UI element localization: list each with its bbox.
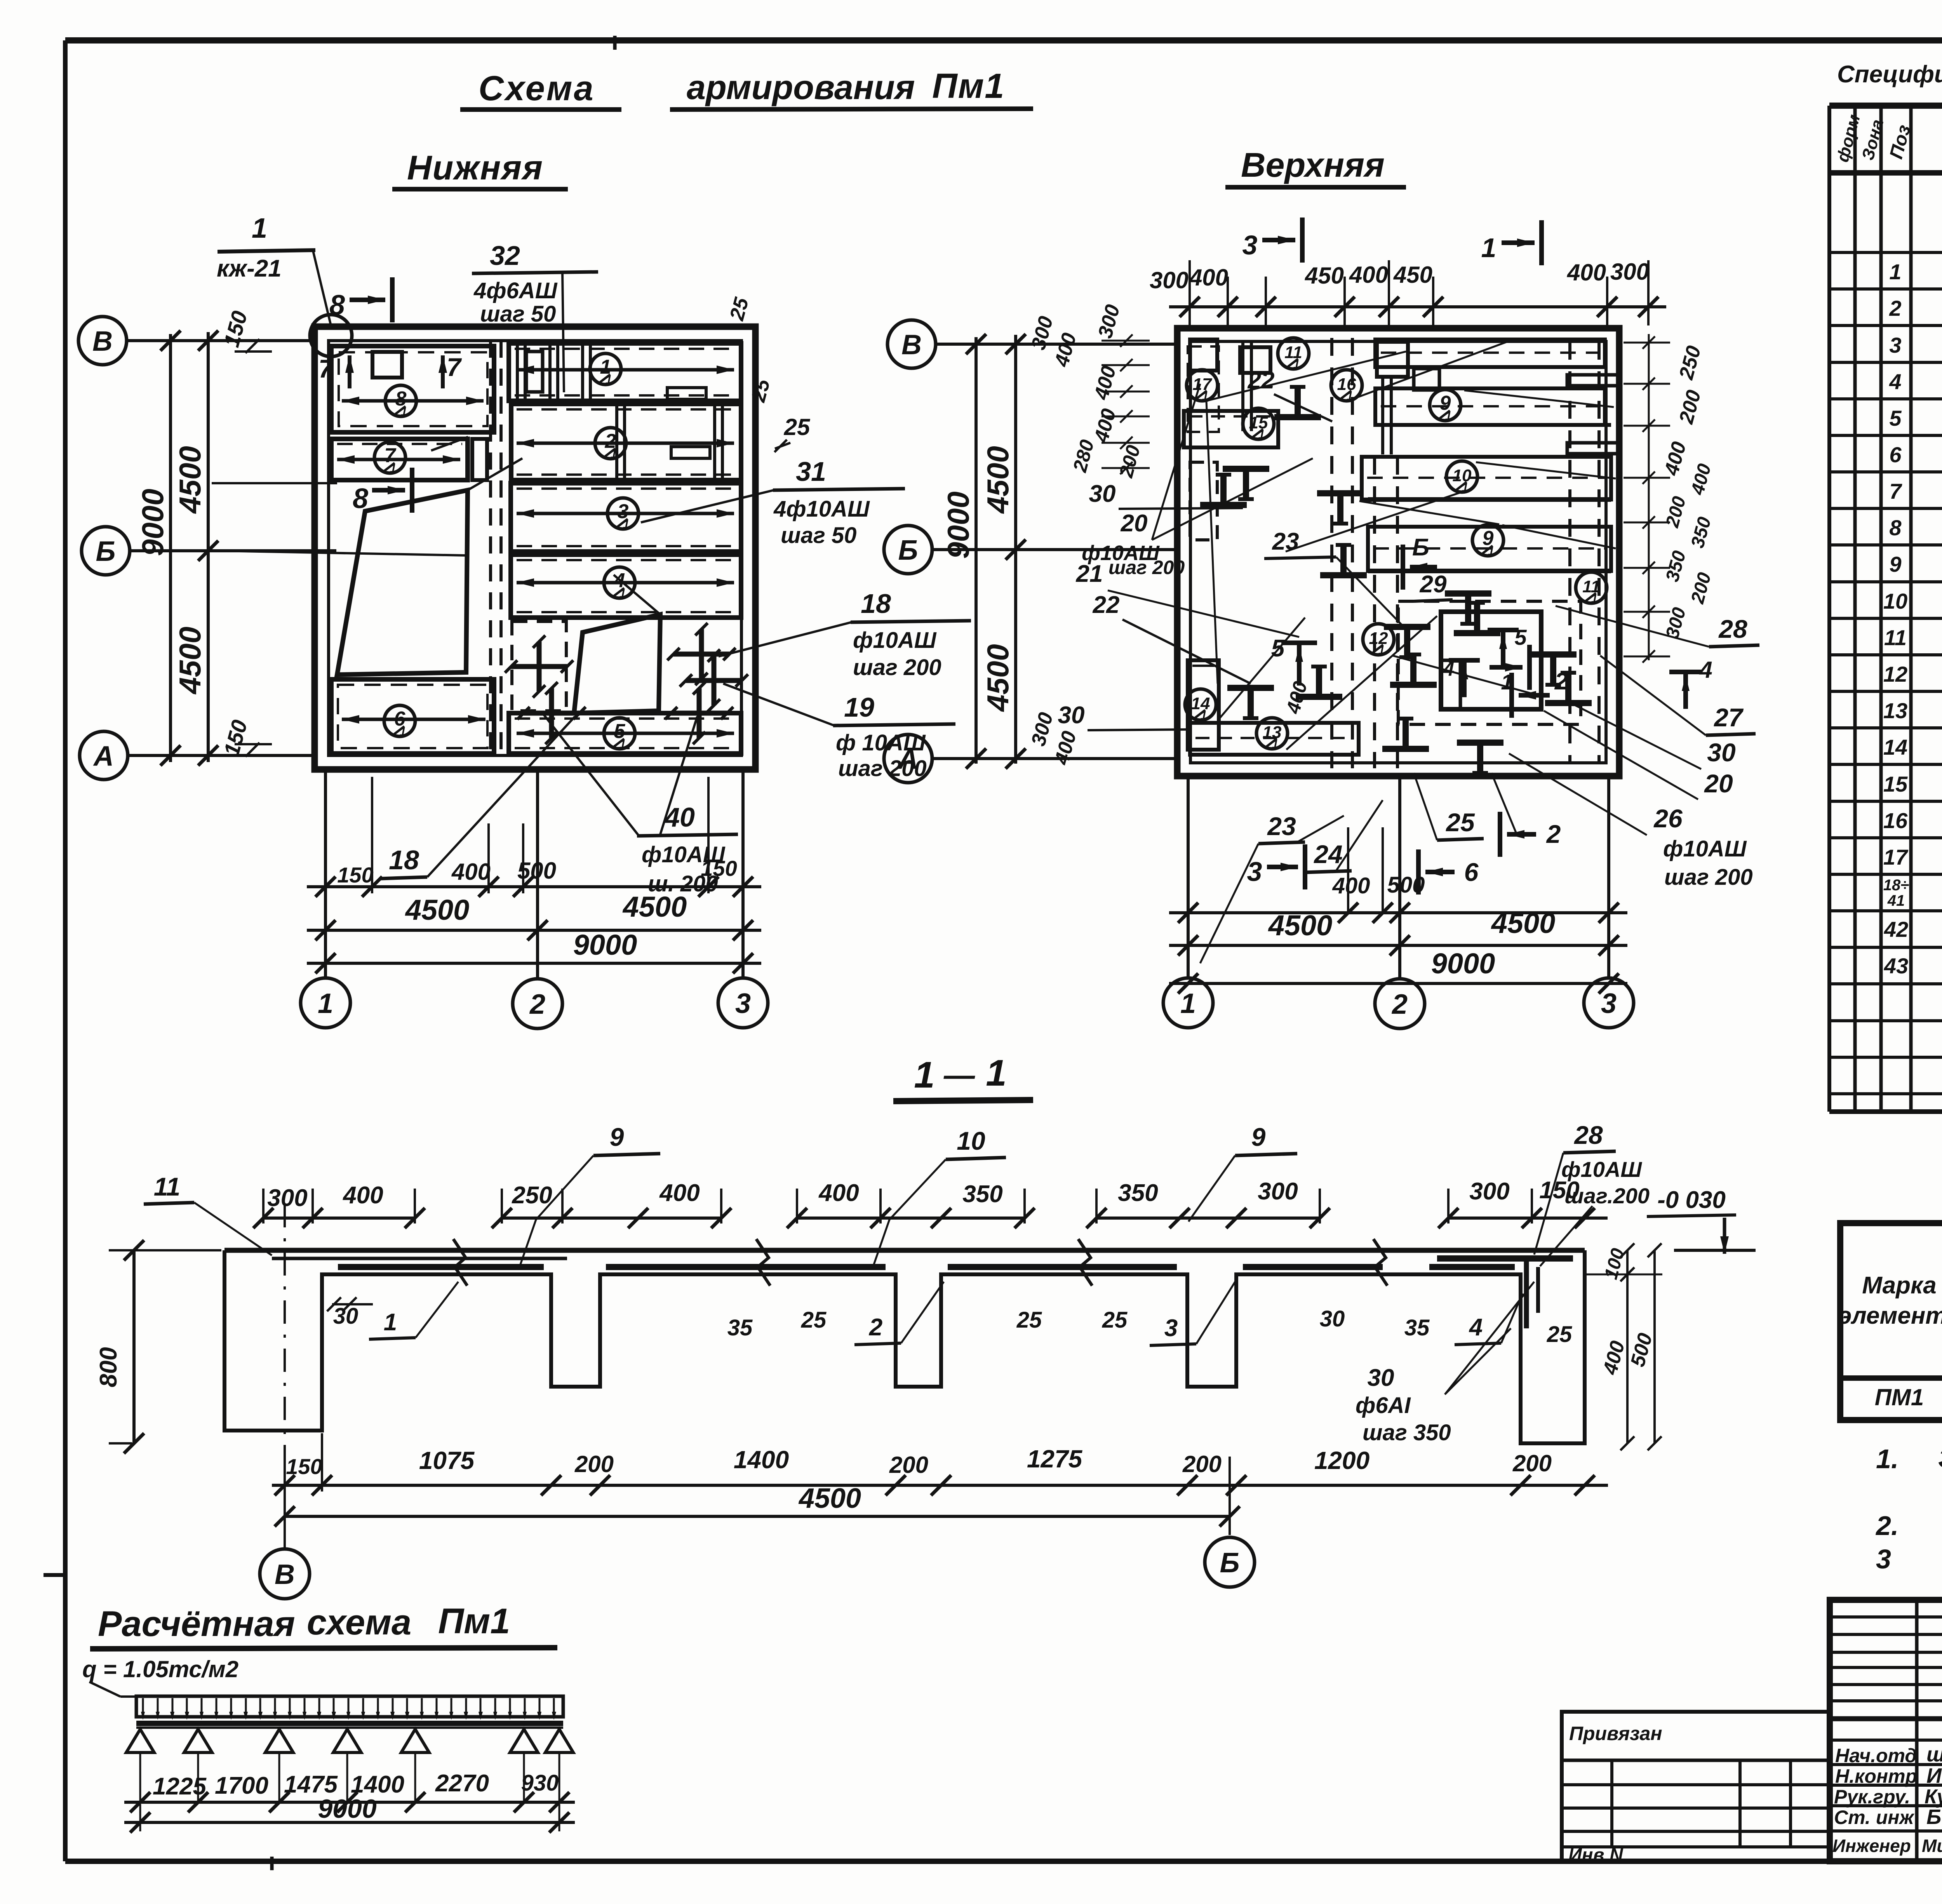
- svg-text:300: 300: [1469, 1178, 1509, 1205]
- svg-text:32: 32: [490, 240, 520, 271]
- svg-text:ф10АШ: ф10АШ: [642, 842, 726, 867]
- svg-text:4500: 4500: [1491, 907, 1556, 939]
- svg-text:3: 3: [1601, 988, 1617, 1019]
- svg-text:4500: 4500: [1268, 909, 1333, 942]
- svg-text:23: 23: [1267, 812, 1296, 841]
- svg-text:23: 23: [1272, 528, 1299, 555]
- svg-text:9000: 9000: [136, 489, 170, 556]
- svg-text:Расчётная: Расчётная: [98, 1604, 295, 1644]
- svg-text:17: 17: [1883, 845, 1909, 869]
- svg-text:шаг 200: шаг 200: [1664, 865, 1753, 890]
- svg-text:элемента: элемента: [1838, 1302, 1942, 1329]
- svg-text:9: 9: [1889, 552, 1901, 576]
- svg-text:1: 1: [1488, 545, 1495, 558]
- svg-text:500: 500: [517, 858, 556, 884]
- svg-text:350: 350: [1662, 548, 1690, 584]
- svg-text:200: 200: [1687, 570, 1715, 606]
- svg-text:1: 1: [619, 587, 626, 600]
- svg-text:2: 2: [1889, 296, 1901, 320]
- svg-text:200: 200: [1115, 443, 1144, 480]
- svg-text:400: 400: [1599, 1338, 1629, 1377]
- svg-text:7: 7: [447, 353, 462, 381]
- svg-text:18: 18: [861, 588, 891, 619]
- svg-text:1: 1: [1272, 738, 1279, 751]
- svg-text:350: 350: [962, 1181, 1002, 1208]
- svg-text:6: 6: [1889, 442, 1902, 467]
- svg-text:9000: 9000: [318, 1794, 376, 1824]
- svg-text:28: 28: [1718, 614, 1747, 643]
- svg-text:1: 1: [401, 406, 407, 418]
- svg-text:20: 20: [1704, 769, 1733, 798]
- svg-text:16: 16: [1883, 808, 1908, 833]
- svg-text:Марка: Марка: [1862, 1272, 1936, 1299]
- svg-text:3: 3: [1242, 230, 1258, 260]
- svg-text:Спецификация: Спецификация: [1837, 61, 1942, 88]
- svg-text:1: 1: [252, 213, 267, 244]
- svg-text:9: 9: [1251, 1123, 1266, 1151]
- svg-text:10: 10: [957, 1126, 985, 1155]
- svg-text:шаг 350: шаг 350: [1363, 1420, 1451, 1445]
- svg-text:25: 25: [801, 1307, 827, 1333]
- svg-text:8: 8: [329, 290, 345, 321]
- svg-text:ф10АШ: ф10АШ: [1561, 1157, 1642, 1182]
- svg-text:2.: 2.: [1875, 1511, 1898, 1541]
- svg-text:12: 12: [1883, 662, 1907, 686]
- svg-text:400: 400: [1349, 262, 1388, 288]
- svg-text:схема: схема: [307, 1603, 411, 1642]
- svg-text:30: 30: [1707, 738, 1736, 767]
- svg-text:41: 41: [1887, 892, 1905, 909]
- svg-text:300: 300: [1027, 314, 1057, 352]
- svg-text:200: 200: [1182, 1451, 1222, 1477]
- svg-text:ш. 200: ш. 200: [648, 871, 718, 896]
- svg-text:19: 19: [844, 692, 874, 722]
- svg-text:25: 25: [1547, 1322, 1572, 1347]
- svg-text:В: В: [901, 329, 922, 360]
- svg-text:Пм1: Пм1: [438, 1601, 510, 1641]
- svg-text:Ст. инж: Ст. инж: [1834, 1807, 1914, 1828]
- svg-text:25: 25: [784, 414, 811, 440]
- svg-text:шаг 50: шаг 50: [781, 523, 856, 548]
- svg-text:Боровик: Боровик: [1926, 1805, 1942, 1829]
- svg-text:14: 14: [1883, 735, 1907, 759]
- svg-text:1400: 1400: [734, 1446, 789, 1474]
- svg-text:35: 35: [727, 1315, 753, 1340]
- svg-text:7: 7: [318, 354, 334, 383]
- svg-text:9: 9: [610, 1123, 624, 1151]
- svg-text:Б: Б: [1220, 1547, 1240, 1579]
- svg-text:ф10АШ: ф10АШ: [853, 628, 937, 653]
- svg-text:350: 350: [1687, 515, 1715, 550]
- svg-text:500: 500: [1626, 1331, 1657, 1369]
- svg-text:1: 1: [390, 462, 397, 475]
- svg-text:400: 400: [1282, 679, 1311, 716]
- svg-text:-0 030: -0 030: [1657, 1187, 1726, 1213]
- svg-text:280: 280: [1068, 437, 1098, 475]
- svg-text:3: 3: [735, 988, 751, 1019]
- svg-text:25: 25: [726, 295, 753, 323]
- svg-text:ПМ1: ПМ1: [1875, 1384, 1924, 1410]
- svg-text:1: 1: [318, 988, 333, 1019]
- svg-text:Б: Б: [96, 536, 116, 567]
- svg-text:2: 2: [869, 1314, 882, 1341]
- svg-text:ф6АI: ф6АI: [1356, 1393, 1411, 1418]
- svg-text:26: 26: [1653, 804, 1683, 833]
- svg-text:Нижняя: Нижняя: [407, 148, 543, 187]
- svg-text:24: 24: [1313, 840, 1342, 868]
- svg-text:30: 30: [1089, 480, 1116, 507]
- svg-text:10: 10: [1883, 589, 1907, 613]
- svg-text:930: 930: [521, 1770, 559, 1796]
- svg-text:29: 29: [1420, 571, 1447, 598]
- svg-text:400: 400: [342, 1182, 383, 1209]
- svg-text:43: 43: [1884, 954, 1908, 978]
- svg-text:2: 2: [1546, 820, 1561, 848]
- svg-text:6: 6: [1464, 858, 1479, 886]
- svg-text:25: 25: [1445, 808, 1475, 837]
- svg-text:500: 500: [1387, 872, 1425, 898]
- svg-text:шаг 200: шаг 200: [1108, 557, 1185, 578]
- svg-text:22: 22: [1093, 592, 1120, 618]
- svg-text:4: 4: [1443, 658, 1455, 680]
- svg-text:300: 300: [1027, 710, 1057, 748]
- svg-text:Верхняя: Верхняя: [1241, 146, 1385, 184]
- svg-text:15: 15: [1883, 772, 1908, 796]
- svg-text:1: 1: [1591, 592, 1598, 605]
- svg-text:1200: 1200: [1314, 1446, 1369, 1474]
- svg-text:1: 1: [619, 738, 626, 751]
- svg-text:200: 200: [1662, 494, 1690, 530]
- svg-text:18: 18: [389, 845, 419, 875]
- svg-text:Б: Б: [1412, 534, 1429, 561]
- svg-text:1700: 1700: [215, 1772, 268, 1799]
- svg-text:Инв N: Инв N: [1568, 1845, 1624, 1866]
- svg-text:q = 1.05тс/м2: q = 1.05тс/м2: [82, 1656, 238, 1682]
- svg-text:2: 2: [529, 989, 545, 1020]
- svg-text:400: 400: [1090, 406, 1121, 445]
- svg-text:3: 3: [1876, 1544, 1891, 1574]
- svg-text:3: 3: [1889, 333, 1901, 357]
- svg-text:1: 1: [914, 1054, 934, 1096]
- svg-text:армирования: армирования: [687, 68, 915, 106]
- svg-text:30: 30: [1320, 1306, 1345, 1331]
- svg-text:Пм1: Пм1: [932, 67, 1005, 106]
- svg-text:4500: 4500: [405, 894, 470, 926]
- svg-text:Рук.гру.: Рук.гру.: [1834, 1786, 1910, 1808]
- svg-text:150: 150: [219, 308, 252, 350]
- svg-text:1.: 1.: [1876, 1444, 1898, 1474]
- svg-text:1: 1: [1258, 428, 1265, 441]
- svg-text:400: 400: [1687, 461, 1715, 497]
- svg-text:9000: 9000: [1431, 947, 1495, 980]
- svg-text:4ф10АШ: 4ф10АШ: [773, 496, 870, 522]
- svg-text:25: 25: [1102, 1307, 1128, 1333]
- svg-text:21: 21: [1076, 560, 1103, 587]
- svg-text:1225: 1225: [153, 1773, 207, 1800]
- svg-text:18÷: 18÷: [1883, 877, 1909, 894]
- svg-text:Мирошникова: Мирошникова: [1922, 1836, 1942, 1856]
- svg-text:400: 400: [1332, 873, 1370, 898]
- svg-text:300: 300: [1150, 267, 1189, 293]
- svg-text:9000: 9000: [573, 929, 637, 961]
- svg-text:4500: 4500: [798, 1483, 861, 1514]
- svg-text:В: В: [92, 326, 113, 357]
- svg-text:30: 30: [1058, 702, 1085, 729]
- svg-text:13: 13: [1883, 698, 1907, 723]
- svg-text:кж-21: кж-21: [217, 255, 282, 282]
- svg-text:1: 1: [1445, 410, 1452, 423]
- svg-text:200: 200: [574, 1451, 614, 1477]
- svg-text:1: 1: [1201, 709, 1207, 722]
- svg-text:Зона: Зона: [1858, 117, 1887, 162]
- svg-text:300: 300: [1094, 302, 1124, 341]
- svg-text:шейко: шейко: [1926, 1743, 1942, 1766]
- svg-text:В: В: [275, 1559, 295, 1590]
- svg-text:42: 42: [1884, 917, 1908, 942]
- svg-text:1075: 1075: [419, 1446, 475, 1474]
- svg-text:2: 2: [1554, 668, 1568, 695]
- svg-text:2270: 2270: [435, 1770, 489, 1797]
- svg-text:9000: 9000: [941, 491, 975, 559]
- svg-text:5: 5: [1514, 625, 1527, 649]
- svg-text:А: А: [897, 744, 918, 775]
- svg-text:11: 11: [1884, 625, 1907, 650]
- svg-text:25: 25: [1016, 1307, 1042, 1333]
- svg-text:Схема: Схема: [479, 69, 595, 108]
- svg-text:4500: 4500: [173, 446, 207, 514]
- svg-text:шаг.200: шаг.200: [1564, 1183, 1650, 1208]
- svg-text:Иванов: Иванов: [1926, 1764, 1942, 1787]
- svg-text:Защитный: Защитный: [1938, 1443, 1942, 1473]
- svg-text:шаг 200: шаг 200: [853, 655, 941, 680]
- svg-text:400: 400: [818, 1180, 859, 1206]
- svg-text:30: 30: [1368, 1364, 1394, 1391]
- svg-text:28: 28: [1573, 1121, 1603, 1149]
- svg-text:7: 7: [1889, 479, 1902, 503]
- svg-text:4ф6АШ: 4ф6АШ: [473, 278, 558, 303]
- svg-text:300: 300: [267, 1185, 307, 1211]
- svg-text:4: 4: [1469, 1314, 1483, 1341]
- svg-text:5: 5: [1271, 635, 1285, 662]
- svg-text:1: 1: [1180, 988, 1196, 1019]
- svg-text:Привязан: Привязан: [1569, 1723, 1662, 1744]
- svg-text:11: 11: [154, 1172, 181, 1201]
- svg-text:ф10АШ: ф10АШ: [1663, 836, 1747, 861]
- svg-text:400: 400: [1050, 729, 1081, 768]
- svg-text:Кунцевич: Кунцевич: [1925, 1786, 1942, 1808]
- svg-text:1: 1: [986, 1052, 1006, 1094]
- svg-text:400: 400: [1660, 439, 1691, 478]
- svg-text:250: 250: [1675, 343, 1705, 382]
- svg-text:25: 25: [747, 376, 775, 405]
- svg-text:400: 400: [1189, 265, 1228, 291]
- svg-text:300: 300: [1258, 1178, 1298, 1205]
- svg-text:350: 350: [1118, 1180, 1158, 1206]
- svg-text:150: 150: [219, 717, 252, 759]
- svg-text:8: 8: [1889, 515, 1902, 540]
- svg-text:1: 1: [400, 726, 406, 738]
- svg-text:150: 150: [337, 863, 373, 887]
- svg-text:4500: 4500: [981, 446, 1015, 514]
- svg-text:400: 400: [1090, 364, 1121, 402]
- svg-text:35: 35: [1404, 1315, 1430, 1340]
- svg-text:А: А: [93, 741, 114, 772]
- svg-text:4500: 4500: [981, 644, 1015, 712]
- svg-text:—: —: [943, 1058, 975, 1092]
- svg-text:450: 450: [1305, 263, 1344, 289]
- svg-text:шаг 50: шаг 50: [480, 301, 556, 327]
- svg-text:1: 1: [1378, 644, 1385, 657]
- svg-text:200: 200: [889, 1452, 928, 1478]
- svg-text:2: 2: [1391, 989, 1408, 1020]
- svg-text:200: 200: [1512, 1450, 1552, 1476]
- svg-text:3: 3: [1164, 1315, 1178, 1342]
- svg-text:800: 800: [95, 1347, 122, 1387]
- svg-text:150: 150: [286, 1454, 322, 1479]
- svg-text:1: 1: [1462, 481, 1469, 494]
- svg-text:1275: 1275: [1027, 1445, 1083, 1473]
- svg-text:4500: 4500: [173, 627, 207, 695]
- svg-text:Б: Б: [898, 535, 918, 566]
- svg-text:400: 400: [659, 1180, 700, 1206]
- svg-text:300: 300: [1610, 259, 1649, 285]
- svg-text:400: 400: [1567, 259, 1606, 285]
- svg-text:1: 1: [606, 374, 612, 386]
- svg-text:Инженер: Инженер: [1832, 1836, 1911, 1856]
- svg-text:4: 4: [1889, 369, 1901, 394]
- svg-text:20: 20: [1121, 510, 1148, 537]
- svg-text:4: 4: [1699, 657, 1712, 683]
- svg-text:Н.контр: Н.контр: [1835, 1765, 1917, 1787]
- svg-text:300: 300: [1662, 605, 1690, 640]
- svg-text:200: 200: [1675, 388, 1705, 426]
- svg-text:22: 22: [1248, 367, 1275, 394]
- svg-text:1: 1: [384, 1309, 397, 1336]
- svg-text:Нач.отд: Нач.отд: [1835, 1745, 1917, 1767]
- svg-text:450: 450: [1393, 262, 1432, 288]
- svg-text:1: 1: [1481, 233, 1497, 263]
- svg-text:400: 400: [1050, 331, 1081, 369]
- svg-text:27: 27: [1713, 703, 1744, 732]
- svg-text:1: 1: [1293, 358, 1300, 371]
- svg-text:250: 250: [512, 1182, 552, 1209]
- svg-text:1: 1: [1889, 259, 1901, 284]
- svg-text:5: 5: [1889, 406, 1902, 430]
- svg-text:1: 1: [623, 518, 630, 531]
- svg-text:400: 400: [451, 859, 491, 885]
- svg-text:31: 31: [796, 456, 826, 487]
